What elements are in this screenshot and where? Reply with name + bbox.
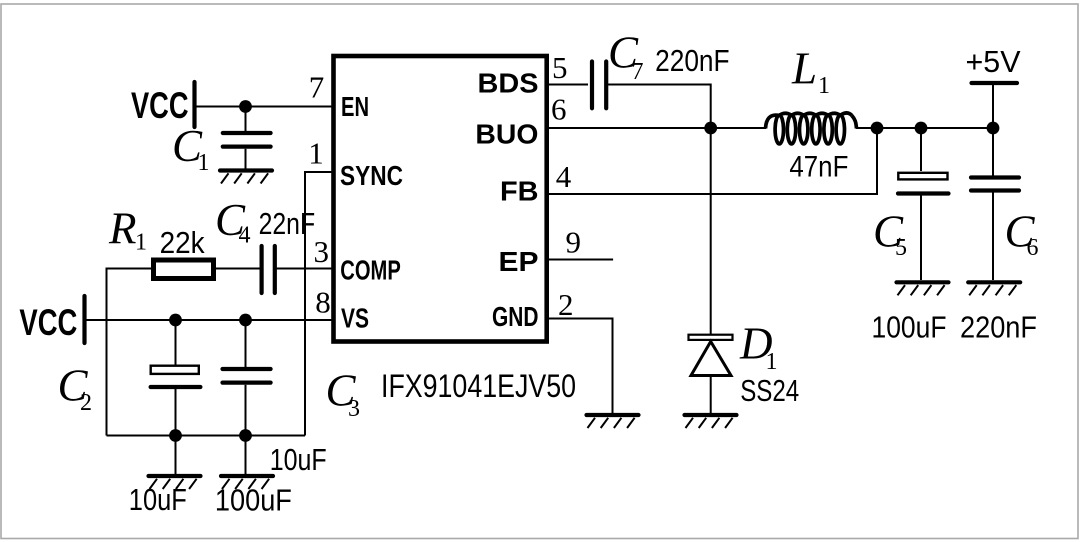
- wire C2 to ground: [175, 436, 177, 476]
- ground under D1: [685, 415, 737, 428]
- ground under C2: [149, 476, 201, 489]
- wire +5V to output node: [992, 85, 994, 128]
- svg-text:R: R: [108, 204, 137, 254]
- node junction C6/+5V tap: [987, 122, 1000, 135]
- svg-text:7: 7: [309, 70, 325, 105]
- wire C1 to ground: [245, 149, 247, 170]
- wire C4 to COMP pin 3: [277, 268, 335, 270]
- wire C3 to ground: [245, 436, 247, 476]
- svg-text:2: 2: [80, 390, 92, 416]
- wire L1 to output: [856, 127, 993, 129]
- node junction VS wire at C3: [239, 314, 252, 327]
- svg-text:VS: VS: [341, 303, 369, 334]
- svg-text:GND: GND: [492, 301, 539, 332]
- svg-text:SS24: SS24: [740, 373, 799, 408]
- svg-text:10uF: 10uF: [129, 482, 187, 517]
- svg-text:VCC: VCC: [19, 302, 77, 343]
- svg-text:VCC: VCC: [131, 85, 189, 126]
- svg-text:6: 6: [551, 92, 567, 127]
- wire VCC to EN pin 7: [196, 106, 334, 108]
- svg-text:1: 1: [818, 73, 830, 99]
- node junction VS wire at C2: [169, 314, 182, 327]
- svg-text:100uF: 100uF: [872, 310, 947, 345]
- svg-text:100uF: 100uF: [215, 483, 292, 518]
- wire C6 top: [992, 128, 994, 176]
- capacitor C2 (electrolytic): [151, 366, 199, 374]
- wire C5 bottom: [920, 195, 922, 280]
- node junction FB tap: [871, 122, 884, 135]
- wire FB pin 4 feedback: [546, 128, 877, 194]
- svg-text:1: 1: [766, 349, 778, 375]
- svg-text:FB: FB: [500, 176, 539, 207]
- svg-text:SYNC: SYNC: [340, 160, 403, 191]
- diode D1 cathode bar: [689, 335, 733, 340]
- capacitor C7: [590, 62, 594, 109]
- svg-text:9: 9: [566, 224, 582, 259]
- wire junction to C1: [245, 107, 247, 133]
- svg-text:7: 7: [632, 59, 644, 85]
- svg-text:3: 3: [348, 396, 360, 422]
- svg-text:1: 1: [198, 150, 210, 176]
- svg-text:3: 3: [313, 234, 329, 269]
- ground under C6: [968, 282, 1020, 295]
- svg-text:EN: EN: [341, 91, 369, 122]
- capacitor C4: [260, 246, 264, 293]
- capacitor C1: [223, 131, 271, 135]
- node junction on EN wire: [239, 100, 252, 113]
- diode D1 triangle: [691, 342, 731, 376]
- svg-text:BDS: BDS: [478, 68, 539, 99]
- svg-text:5: 5: [895, 235, 907, 261]
- wire VCC to VS pin 8: [86, 319, 334, 321]
- wire bottom rail: [107, 435, 306, 437]
- svg-text:IFX91041EJV50: IFX91041EJV50: [381, 368, 576, 404]
- power VCC terminal (top): [192, 82, 196, 127]
- capacitor C3: [223, 367, 271, 371]
- svg-text:BUO: BUO: [475, 119, 538, 150]
- wire EP pin 9 stub: [546, 259, 613, 261]
- svg-text:6: 6: [1027, 235, 1039, 261]
- power +5V terminal: [972, 81, 1018, 85]
- wire C7 to BUO node: [608, 85, 711, 129]
- svg-text:22k: 22k: [160, 225, 205, 260]
- capacitor C5 (electrolytic): [898, 173, 947, 180]
- capacitor C6: [971, 175, 1019, 179]
- wire BUO pin 6 to L1: [546, 127, 766, 129]
- svg-text:2: 2: [558, 287, 574, 322]
- wire R1 to C4: [216, 268, 260, 270]
- node junction bottom rail at C3: [239, 429, 252, 442]
- IC U1 IFX91041EJV50: [334, 56, 547, 342]
- node junction bottom rail at C2: [169, 429, 182, 442]
- svg-text:L: L: [791, 44, 817, 94]
- wire C6 bottom: [992, 193, 994, 281]
- wire C3 top: [245, 320, 247, 367]
- wire C5 top: [920, 128, 922, 171]
- svg-text:5: 5: [552, 50, 568, 85]
- svg-text:1: 1: [308, 136, 324, 171]
- svg-text:EP: EP: [499, 246, 539, 277]
- svg-text:COMP: COMP: [340, 255, 401, 286]
- wire C2 top: [175, 320, 177, 365]
- svg-text:220nF: 220nF: [655, 43, 730, 78]
- power VCC terminal (lower): [82, 296, 86, 343]
- svg-text:22nF: 22nF: [259, 206, 316, 241]
- wire BDS pin 5 to C7: [546, 84, 588, 86]
- wire SYNC pin 1: [305, 172, 334, 436]
- inductor L1: [766, 113, 857, 144]
- resistor R1: [154, 260, 214, 279]
- node junction C5 tap: [915, 122, 928, 135]
- wire C3 bottom: [245, 385, 247, 436]
- ground under C3: [221, 476, 273, 489]
- ground under C1: [220, 171, 272, 184]
- ground under C5: [897, 282, 949, 295]
- svg-text:1: 1: [135, 230, 147, 256]
- svg-text:4: 4: [556, 159, 572, 194]
- wire BUO node to D1: [710, 128, 712, 335]
- node junction BUO/C7/D1: [704, 122, 717, 135]
- svg-text:8: 8: [315, 284, 331, 319]
- svg-text:4: 4: [239, 223, 251, 249]
- svg-text:47nF: 47nF: [789, 151, 848, 184]
- svg-text:+5V: +5V: [966, 44, 1021, 79]
- ground under IC GND: [587, 415, 639, 428]
- wire C2 bottom: [175, 389, 177, 436]
- wire GND pin 2 to ground: [546, 319, 613, 414]
- wire left loop to R1: [107, 269, 153, 436]
- wire D1 to ground: [710, 376, 712, 414]
- svg-text:220nF: 220nF: [960, 310, 1037, 345]
- svg-text:10uF: 10uF: [270, 442, 327, 477]
